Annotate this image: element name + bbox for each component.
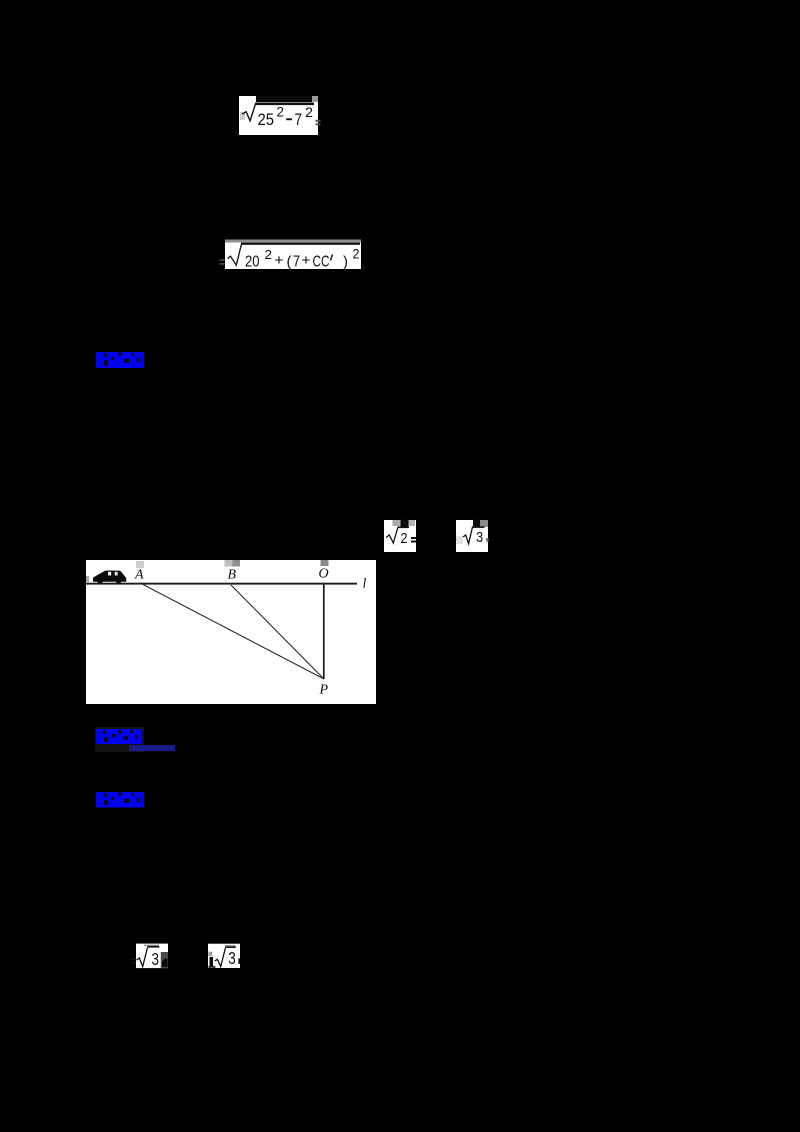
svg-text:,: , <box>362 256 366 273</box>
svg-text:l: l <box>363 577 367 592</box>
svg-text:2: 2 <box>265 247 273 262</box>
svg-text:3: 3 <box>228 948 236 968</box>
svg-text:3: 3 <box>152 949 160 969</box>
svg-text:A: A <box>134 568 144 583</box>
svg-text:): ) <box>343 254 348 271</box>
svg-text:7: 7 <box>293 254 300 271</box>
svg-text:7: 7 <box>295 111 303 129</box>
svg-text:25: 25 <box>258 111 275 129</box>
svg-text:2: 2 <box>277 105 285 120</box>
svg-text:20: 20 <box>245 254 260 271</box>
svg-text:B: B <box>228 568 237 583</box>
svg-text:O: O <box>319 567 329 582</box>
svg-text:2: 2 <box>353 247 360 262</box>
svg-text:+: + <box>275 252 284 269</box>
svg-text:P: P <box>319 683 329 698</box>
svg-text:2: 2 <box>305 105 313 120</box>
svg-text:CC: CC <box>313 254 330 271</box>
svg-text:2: 2 <box>401 531 408 547</box>
svg-text:3: 3 <box>476 530 483 546</box>
svg-text:+: + <box>302 252 311 269</box>
svg-text:(: ( <box>287 254 292 271</box>
